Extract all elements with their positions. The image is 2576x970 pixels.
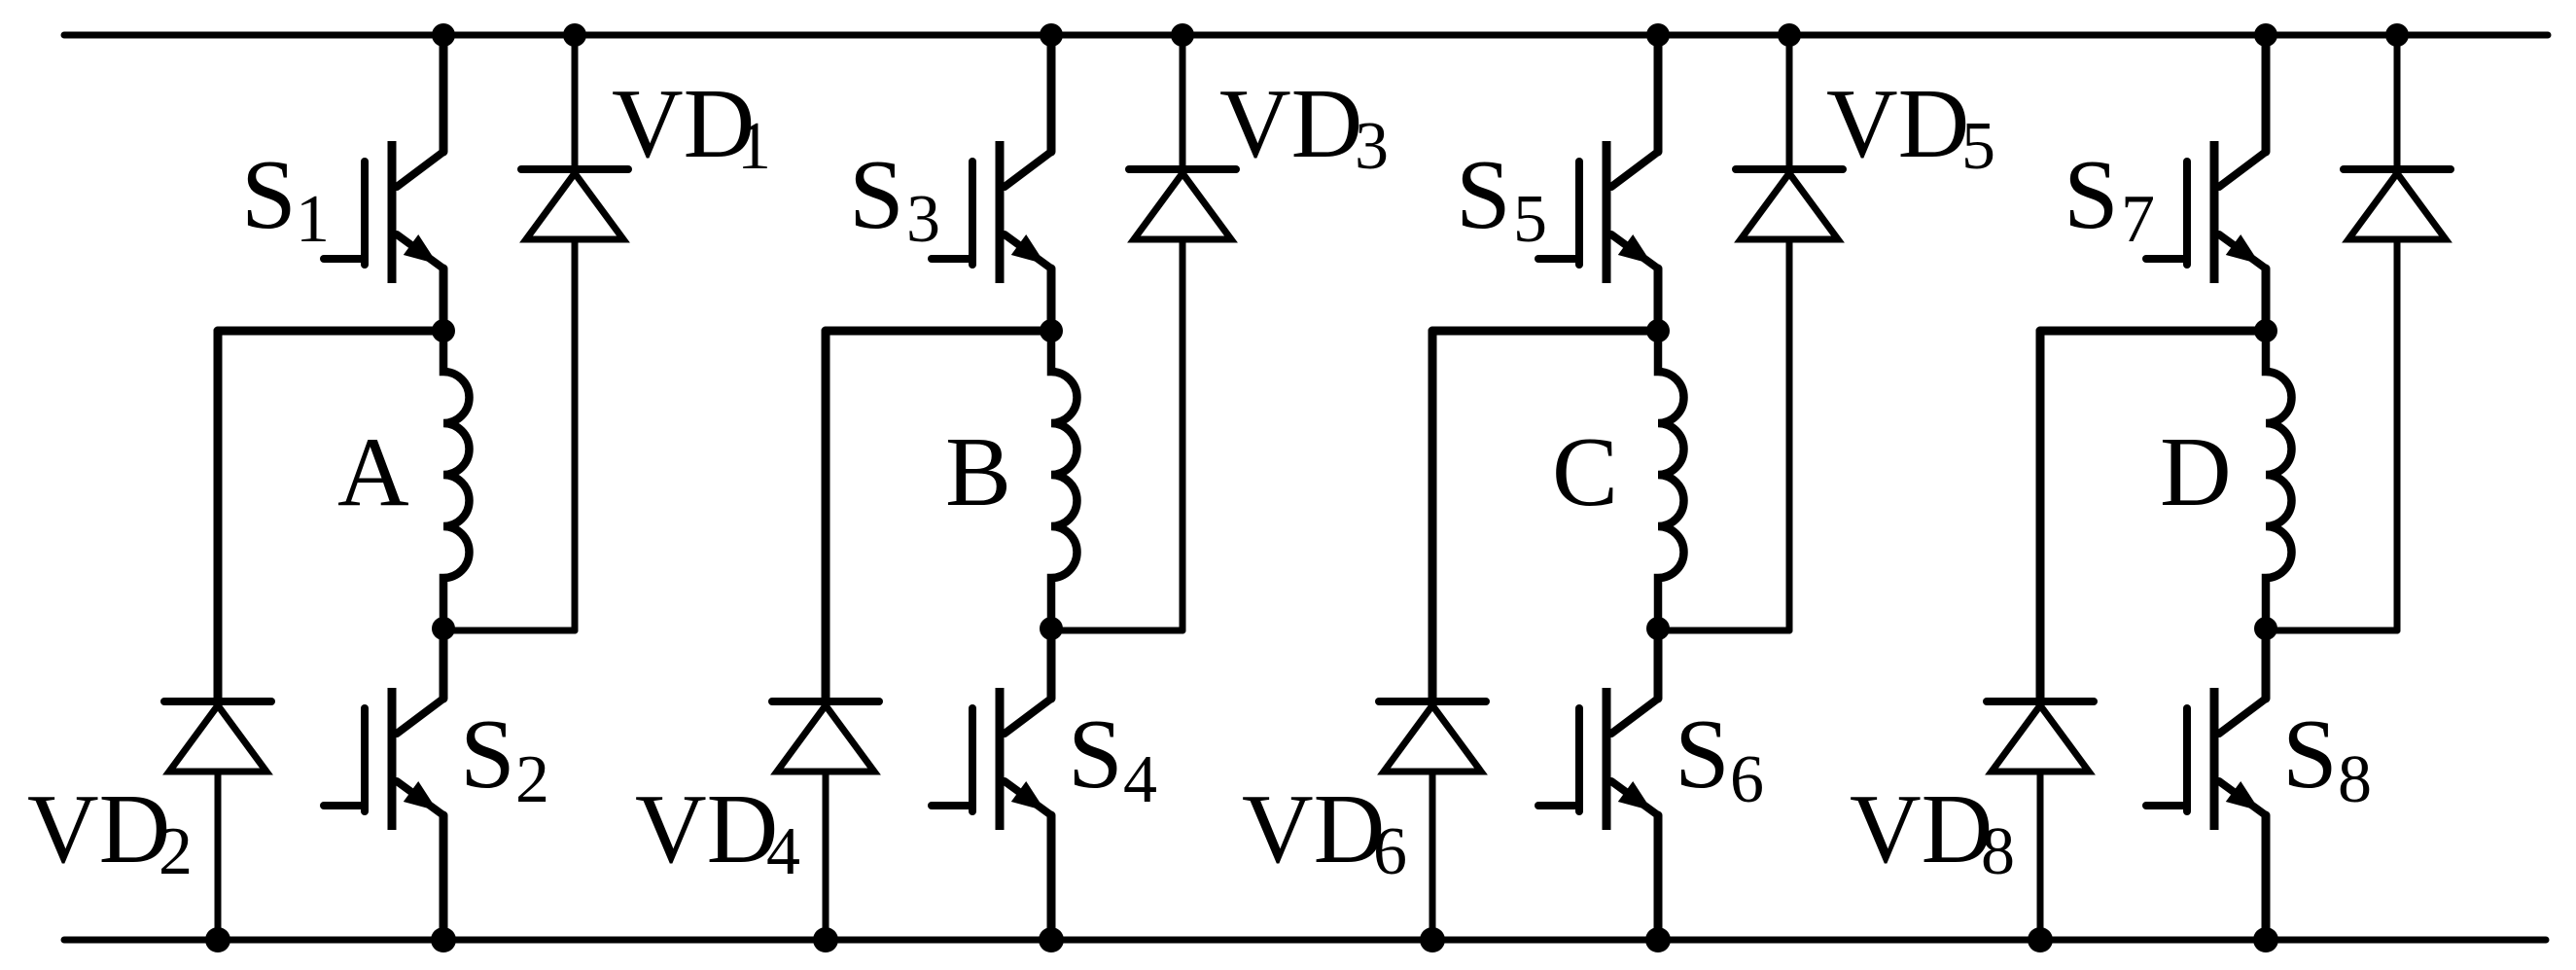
svg-text:1: 1 bbox=[296, 182, 330, 257]
svg-text:S: S bbox=[2282, 700, 2338, 809]
label phase C bbox=[1552, 417, 1618, 527]
wire lower node to diode anode bbox=[1051, 628, 1182, 634]
svg-text:VD: VD bbox=[1850, 774, 1993, 884]
svg-text:4: 4 bbox=[1123, 742, 1157, 817]
diode VD8 bbox=[1987, 331, 2094, 940]
wire upper node to left branch bbox=[218, 331, 443, 699]
svg-text:S: S bbox=[1068, 700, 1123, 809]
svg-text:A: A bbox=[337, 417, 409, 527]
inductor phase A winding bbox=[443, 331, 470, 629]
svg-text:5: 5 bbox=[1961, 109, 1995, 184]
inductor phase B winding bbox=[1051, 331, 1077, 629]
label S2 bbox=[460, 700, 549, 817]
transistor S5 bbox=[1538, 35, 1658, 331]
transistor S7 bbox=[2146, 35, 2266, 331]
label VD2 bbox=[27, 774, 193, 889]
svg-text:6: 6 bbox=[1730, 742, 1764, 817]
label VD3 bbox=[1219, 69, 1389, 184]
svg-text:2: 2 bbox=[159, 814, 193, 889]
svg-text:6: 6 bbox=[1373, 814, 1407, 889]
node junctions bbox=[2028, 23, 2409, 952]
label S8 bbox=[2282, 700, 2372, 817]
label S6 bbox=[1675, 700, 1764, 817]
transistor S1 bbox=[324, 35, 443, 331]
svg-text:3: 3 bbox=[1355, 109, 1389, 184]
diode VD6 bbox=[1379, 331, 1486, 940]
svg-text:S: S bbox=[1675, 700, 1730, 809]
diode VD3 bbox=[1129, 35, 1236, 630]
wire upper node to left branch bbox=[1432, 331, 1658, 699]
svg-text:VD: VD bbox=[612, 69, 755, 179]
svg-text:C: C bbox=[1552, 417, 1618, 527]
label VD6 bbox=[1242, 774, 1407, 889]
svg-text:S: S bbox=[2064, 140, 2119, 250]
label VD4 bbox=[635, 774, 800, 889]
svg-text:VD: VD bbox=[1826, 69, 1969, 179]
node junctions bbox=[205, 23, 586, 952]
svg-text:7: 7 bbox=[2121, 182, 2155, 257]
wire lower node to diode anode bbox=[2266, 628, 2397, 634]
svg-text:1: 1 bbox=[737, 109, 771, 184]
svg-text:S: S bbox=[849, 140, 904, 250]
label S1 bbox=[241, 140, 330, 257]
transistor S2 bbox=[324, 629, 443, 940]
diode VD1 bbox=[521, 35, 628, 630]
transistor S6 bbox=[1538, 629, 1658, 940]
label phase A bbox=[337, 417, 409, 527]
inductor phase C winding bbox=[1658, 331, 1684, 629]
label VD8 bbox=[1850, 774, 2015, 889]
svg-text:S: S bbox=[1456, 140, 1511, 250]
svg-text:8: 8 bbox=[2338, 742, 2372, 817]
wire upper node to left branch bbox=[826, 331, 1051, 699]
diode VD (unlabeled) bbox=[2344, 35, 2451, 630]
wire bottom DC bus bbox=[64, 937, 2546, 944]
svg-text:8: 8 bbox=[1981, 814, 2015, 889]
wire lower node to diode anode bbox=[1658, 628, 1789, 634]
label VD5 bbox=[1826, 69, 1995, 184]
svg-text:VD: VD bbox=[635, 774, 778, 884]
svg-text:5: 5 bbox=[1513, 182, 1547, 257]
diode VD2 bbox=[164, 331, 271, 940]
diode VD5 bbox=[1736, 35, 1843, 630]
svg-text:VD: VD bbox=[27, 774, 170, 884]
node junctions bbox=[813, 23, 1194, 952]
label S4 bbox=[1068, 700, 1157, 817]
wire top DC bus bbox=[64, 32, 2548, 39]
svg-text:B: B bbox=[945, 417, 1011, 527]
label S3 bbox=[849, 140, 940, 257]
label VD1 bbox=[612, 69, 771, 184]
label phase D bbox=[2160, 417, 2232, 527]
svg-text:3: 3 bbox=[906, 182, 940, 257]
svg-text:D: D bbox=[2160, 417, 2232, 527]
wire lower node to diode anode bbox=[443, 628, 575, 634]
svg-text:S: S bbox=[241, 140, 297, 250]
svg-text:S: S bbox=[460, 700, 515, 809]
svg-text:2: 2 bbox=[515, 742, 549, 817]
svg-text:VD: VD bbox=[1242, 774, 1385, 884]
diode VD4 bbox=[772, 331, 879, 940]
wire upper node to left branch bbox=[2040, 331, 2266, 699]
svg-text:4: 4 bbox=[766, 814, 800, 889]
transistor S4 bbox=[932, 629, 1051, 940]
label S5 bbox=[1456, 140, 1547, 257]
svg-text:VD: VD bbox=[1219, 69, 1362, 179]
label phase B bbox=[945, 417, 1011, 527]
transistor S3 bbox=[932, 35, 1051, 331]
inductor phase D winding bbox=[2266, 331, 2292, 629]
label S7 bbox=[2064, 140, 2155, 257]
node junctions bbox=[1420, 23, 1801, 952]
transistor S8 bbox=[2146, 629, 2266, 940]
